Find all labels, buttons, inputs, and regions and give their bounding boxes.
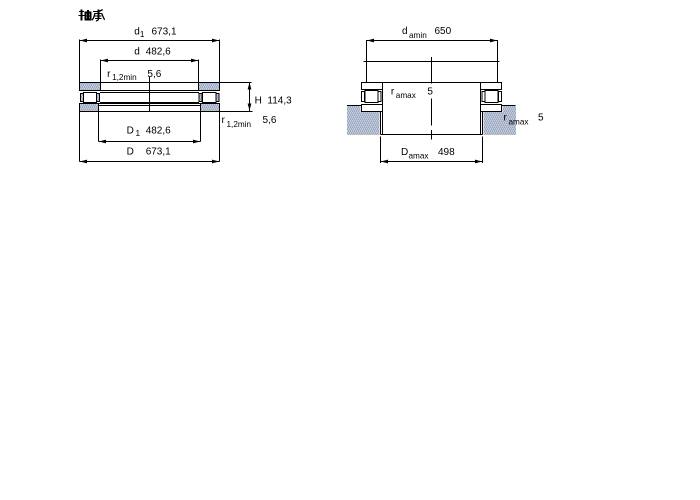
bearing body rect <box>383 83 481 135</box>
shaft washer rect left (right fig) <box>362 83 383 90</box>
arrow D1 right <box>193 140 200 144</box>
extension line Damax right <box>482 137 484 164</box>
centerline right figure seg A <box>431 57 433 84</box>
bearing OD edge right below washer <box>482 112 484 135</box>
wire housing washer inner shoulder edge (middle) <box>98 105 201 107</box>
dimension line H vertical <box>249 83 251 112</box>
svg-text:d: d <box>134 47 140 58</box>
extension line D1 right <box>200 112 202 142</box>
svg-text:482,6: 482,6 <box>146 126 171 137</box>
dimension line d 482,6 <box>101 60 199 62</box>
arrow D right <box>212 160 219 164</box>
wire roller bottom edge (middle) <box>100 102 199 104</box>
svg-text:D: D <box>401 147 408 158</box>
extension line D left <box>79 112 81 162</box>
svg-text:673,1: 673,1 <box>146 146 171 157</box>
svg-text:d: d <box>402 26 408 37</box>
extension line damin left <box>366 40 368 82</box>
extension line d1 left <box>79 40 81 83</box>
arrow H down <box>248 104 252 111</box>
cage bar left outer (right fig) <box>362 92 365 102</box>
svg-text:1,2min: 1,2min <box>112 73 137 82</box>
arrow D1 left <box>99 140 106 144</box>
svg-text:482,6: 482,6 <box>146 47 171 58</box>
cage bar left inner (right fig) <box>378 92 381 102</box>
cage bar right outer (right fig) <box>499 92 502 102</box>
svg-text:5: 5 <box>427 86 433 97</box>
cage bar right outer <box>216 94 219 102</box>
arrow damin left <box>367 39 374 43</box>
wire shaft washer bottom edge (middle) <box>101 90 199 92</box>
arrow Damax left <box>381 160 388 164</box>
housing washer left section <box>80 104 99 112</box>
svg-text:1: 1 <box>136 129 141 138</box>
cage bar right inner (right fig) <box>482 92 485 102</box>
svg-text:D: D <box>127 146 134 157</box>
centerline right figure seg C <box>431 130 433 140</box>
svg-text:amax: amax <box>396 91 416 100</box>
extension line Damax left <box>380 137 382 164</box>
shaft washer left section <box>80 83 101 91</box>
extension line d right <box>198 60 200 83</box>
roller right (right fig) <box>485 91 498 103</box>
extension line D right <box>219 112 221 162</box>
wire top surface line + H connector <box>80 82 252 84</box>
housing washer right section <box>201 104 220 112</box>
dimension line damin 650 <box>367 40 498 42</box>
centerline right figure seg B <box>431 99 433 126</box>
shaft washer rect right (right fig) <box>481 83 502 90</box>
svg-text:1,2min: 1,2min <box>227 120 252 129</box>
svg-text:amax: amax <box>409 152 429 161</box>
svg-text:5: 5 <box>538 113 544 124</box>
arrow d right <box>191 59 198 63</box>
housing washer rect right (right fig) <box>481 105 502 112</box>
arrow D left <box>80 160 87 164</box>
roller right <box>203 93 217 103</box>
housing washer rect left (right fig) <box>362 105 383 112</box>
bearing bottom line right figure <box>381 134 483 136</box>
svg-text:5,6: 5,6 <box>147 69 161 80</box>
arrow Damax right <box>475 160 482 164</box>
svg-text:650: 650 <box>435 26 452 37</box>
svg-text:amin: amin <box>409 31 427 40</box>
extension line D1 left <box>98 112 100 142</box>
housing shoulder top line right <box>502 105 516 107</box>
svg-text:673,1: 673,1 <box>152 27 177 38</box>
cage bar left outer <box>81 94 84 102</box>
cage bar left inner <box>97 94 100 102</box>
svg-text:D: D <box>127 126 134 137</box>
wire cage top edge (middle) <box>100 92 199 94</box>
arrow damin right <box>490 39 497 43</box>
extension line d1 right <box>219 40 221 83</box>
shaft surface line <box>364 61 500 63</box>
extension line damin right <box>497 40 499 82</box>
extension line d left <box>100 60 102 83</box>
dimension line D 673,1 <box>80 161 220 163</box>
shaft washer right section <box>199 83 220 91</box>
wire bottom surface line + H connector <box>80 111 253 113</box>
dimension line Damax 498 <box>381 161 483 163</box>
svg-text:H: H <box>255 95 262 106</box>
title 轴承 (drawn glyphs) <box>82 10 99 21</box>
svg-text:498: 498 <box>438 147 455 158</box>
bearing top surface line right figure <box>361 82 502 84</box>
housing shoulder hatch right <box>484 106 517 135</box>
centerline left figure <box>149 77 151 112</box>
dimension line d1 673,1 <box>80 40 220 42</box>
roller left (right fig) <box>365 91 378 103</box>
wire housing washer top edge (middle) <box>98 103 201 105</box>
arrow d1 left <box>80 39 87 43</box>
svg-text:5,6: 5,6 <box>263 115 277 126</box>
roller left <box>84 93 97 103</box>
svg-text:amax: amax <box>509 118 529 127</box>
arrow H up <box>248 83 252 90</box>
arrow d1 right <box>212 39 219 43</box>
bearing OD edge left below washer <box>380 112 382 135</box>
svg-text:114,3: 114,3 <box>267 95 292 106</box>
dimension line D1 482,6 <box>99 141 201 143</box>
housing shoulder top line left <box>347 105 362 107</box>
housing shoulder hatch left <box>347 106 380 135</box>
cage bar right inner <box>199 94 202 102</box>
arrow d left <box>101 59 108 63</box>
